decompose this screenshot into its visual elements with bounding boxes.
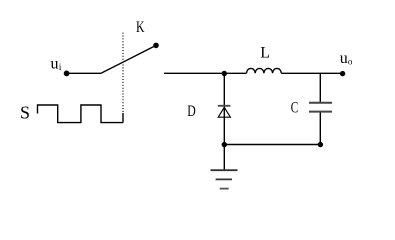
svg-text:C: C [291,100,299,117]
svg-text:u: u [340,50,348,67]
svg-text:K: K [136,19,145,36]
svg-text:u: u [51,56,59,73]
svg-text:D: D [187,103,196,120]
svg-text:i: i [59,62,62,72]
svg-text:o: o [348,56,353,66]
svg-text:S: S [20,103,30,123]
svg-text:L: L [260,44,270,61]
